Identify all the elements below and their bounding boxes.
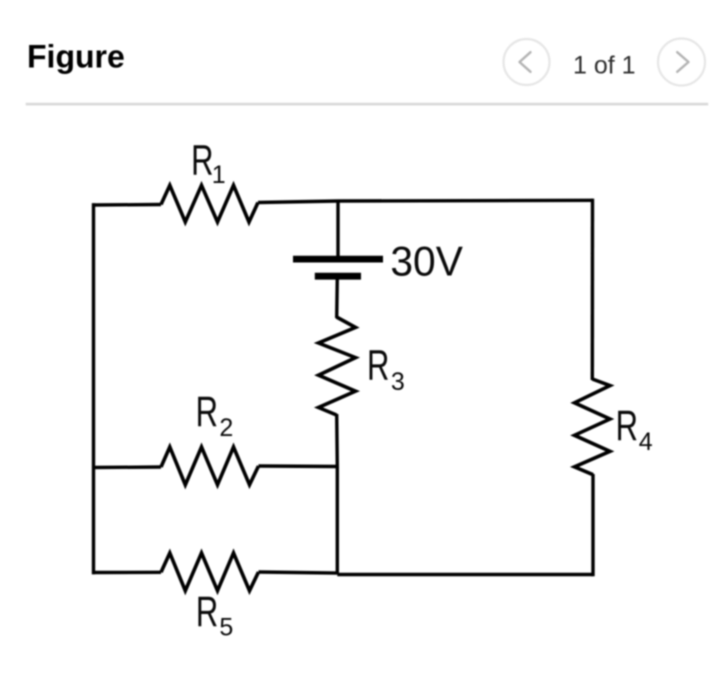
label R3 [367,340,405,396]
label R1 [191,135,226,189]
battery V1 negative plate [315,273,361,280]
next page button [658,39,705,86]
wire: R2 left lead from left rail [92,465,161,469]
svg-text:1 of 1: 1 of 1 [573,52,636,80]
wire: right rail bottom (R4 to bottom-right corner) [591,474,594,576]
svg-text:R: R [616,401,638,449]
resistor R3 [319,317,356,415]
svg-text:5: 5 [219,613,233,641]
resistor R4 [575,379,611,475]
wire: middle rail from R3 down to bottom wire [335,414,339,574]
wire: top-left segment [92,203,161,207]
wire: battery top lead [337,200,338,258]
label R5 [196,587,233,642]
header divider [26,103,709,106]
battery V1 positive plate [293,256,383,263]
wire: left rail (top-left corner to bottom-left corner) [92,203,95,574]
svg-text:R: R [196,587,218,635]
page indicator 1 of 1 [573,52,636,80]
svg-text:R: R [191,135,213,183]
svg-text:4: 4 [639,428,653,456]
svg-text:R: R [367,340,389,388]
resistor R1 [161,185,258,222]
svg-text:3: 3 [391,368,405,396]
prev page button [504,39,550,85]
wire: bottom right segment (node C to bottom-right corner) [337,573,593,576]
figure panel title [27,39,125,75]
svg-text:Figure: Figure [27,39,125,75]
wire: R2 right lead to middle rail (node B) [259,464,339,468]
wire: bottom-left segment [92,571,161,575]
resistor R2 [161,447,259,485]
label R4 [616,401,653,456]
resistor R5 [161,553,259,591]
wire: battery bottom lead to R3 [335,277,339,318]
node A (top junction of battery branch) [338,199,593,203]
svg-text:R: R [196,387,218,435]
label R2 [196,387,234,442]
wire: bottom middle segment (R5 to node C) [259,572,338,573]
svg-text:2: 2 [219,414,233,442]
svg-text:1: 1 [212,161,226,189]
wire: right rail top (top-right corner down to R4) [591,199,595,380]
svg-text:30V: 30V [390,238,463,285]
wire: top middle segment (R1 to node A) [258,201,338,203]
value label 30V [390,238,463,285]
